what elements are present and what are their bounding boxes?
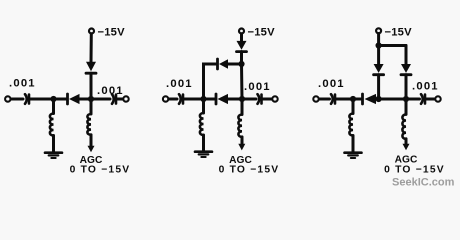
capacitor C5	[331, 94, 333, 104]
diode CR5	[216, 59, 219, 69]
diode CR6	[361, 94, 364, 104]
wire input to C1	[11, 98, 23, 101]
svg-text:0 TO −15V: 0 TO −15V	[219, 165, 280, 176]
wire node B2 down	[241, 99, 244, 115]
wire node A2 down	[202, 99, 205, 113]
svg-text:.001: .001	[244, 81, 271, 93]
output terminal	[123, 96, 128, 101]
svg-text:0 TO −15V: 0 TO −15V	[70, 165, 131, 176]
AGC arrow	[405, 139, 408, 145]
node C2	[238, 61, 244, 67]
wire -15V down to top bar	[377, 34, 380, 46]
node B2	[239, 96, 245, 102]
-15V supply terminal	[89, 29, 94, 34]
wire node B1 down	[90, 99, 93, 114]
wire CR1 to C2	[80, 98, 111, 101]
wire C5 to diode CR6	[336, 98, 362, 101]
wire top bar	[378, 44, 407, 47]
inductor L4	[238, 115, 242, 137]
capacitor C6	[421, 94, 423, 104]
ground	[45, 151, 62, 154]
capacitor C4	[258, 94, 260, 104]
output terminal	[272, 96, 277, 101]
wire bar down right to diode CR8	[405, 46, 408, 65]
node A2	[200, 96, 206, 102]
inductor L5	[349, 114, 353, 136]
wire C1 to diode CR1	[30, 98, 67, 101]
-15V supply terminal	[376, 28, 381, 33]
wire C4 to output	[262, 98, 272, 101]
wire -15V to diode CR4	[240, 34, 243, 42]
diode CR4	[237, 41, 247, 50]
wire CR8 to node B3	[405, 75, 408, 99]
AGC arrow	[90, 135, 93, 146]
diode CR2	[86, 62, 96, 72]
wire node A1 down	[52, 99, 55, 114]
-15V supply terminal	[239, 29, 244, 34]
wire node C2 to node B2	[240, 64, 244, 99]
svg-text:.001: .001	[318, 78, 345, 90]
ground	[345, 151, 362, 154]
input terminal	[313, 96, 318, 101]
wire input to C3	[168, 98, 177, 101]
diode CR7	[374, 64, 384, 73]
wire CR6 to C6	[375, 98, 420, 101]
svg-text:.001: .001	[97, 85, 124, 97]
wire -15V to diode CR2	[90, 34, 93, 63]
svg-text:.001: .001	[412, 81, 439, 93]
wire CR4 to node C2	[240, 52, 243, 64]
node A3	[350, 96, 356, 102]
wire CR2 to node B1	[90, 73, 93, 99]
wire L3 to ground	[202, 135, 205, 151]
wire CR5 to corner, down to node A2	[204, 64, 217, 99]
ground	[195, 150, 212, 153]
diode CR8	[401, 64, 411, 73]
output terminal	[435, 96, 440, 101]
svg-text:−15V: −15V	[248, 26, 276, 38]
inductor L1	[50, 114, 54, 136]
wire CR7 to node D3	[377, 75, 380, 99]
node A1	[50, 96, 56, 102]
diode CR1	[66, 94, 69, 104]
svg-text:−15V: −15V	[385, 26, 413, 38]
inductor L3	[200, 113, 204, 135]
wire bar down left to diode CR7	[377, 46, 380, 65]
inductor L2	[87, 114, 91, 135]
node T3	[376, 42, 382, 48]
wire C6 to output	[426, 98, 436, 101]
node B3	[403, 96, 409, 102]
capacitor C2	[112, 94, 114, 104]
capacitor C3	[179, 94, 181, 104]
node D3	[376, 96, 382, 102]
wire C3 to diode CR3	[184, 98, 215, 101]
AGC arrow	[241, 137, 244, 145]
wire node B3 down	[405, 99, 408, 114]
input terminal	[5, 96, 10, 101]
inductor L6	[402, 114, 406, 138]
wire CR3 to C4	[228, 98, 256, 101]
wire branch: node C2 to diode CR5	[228, 63, 242, 66]
wire L5 to ground	[352, 136, 355, 153]
svg-text:0 TO −15V: 0 TO −15V	[384, 165, 445, 176]
capacitor C1	[25, 94, 27, 104]
wire L1 to ground	[52, 136, 55, 153]
wire input to C5	[319, 98, 330, 101]
svg-text:−15V: −15V	[98, 26, 126, 38]
diode CR3	[215, 94, 218, 104]
input terminal	[163, 96, 168, 101]
svg-text:.001: .001	[9, 78, 36, 90]
svg-text:SeekIC.com: SeekIC.com	[392, 177, 455, 189]
wire node A3 down	[352, 99, 355, 114]
wire C2 to output	[117, 98, 124, 101]
node B1	[88, 96, 94, 102]
svg-text:.001: .001	[166, 78, 193, 90]
